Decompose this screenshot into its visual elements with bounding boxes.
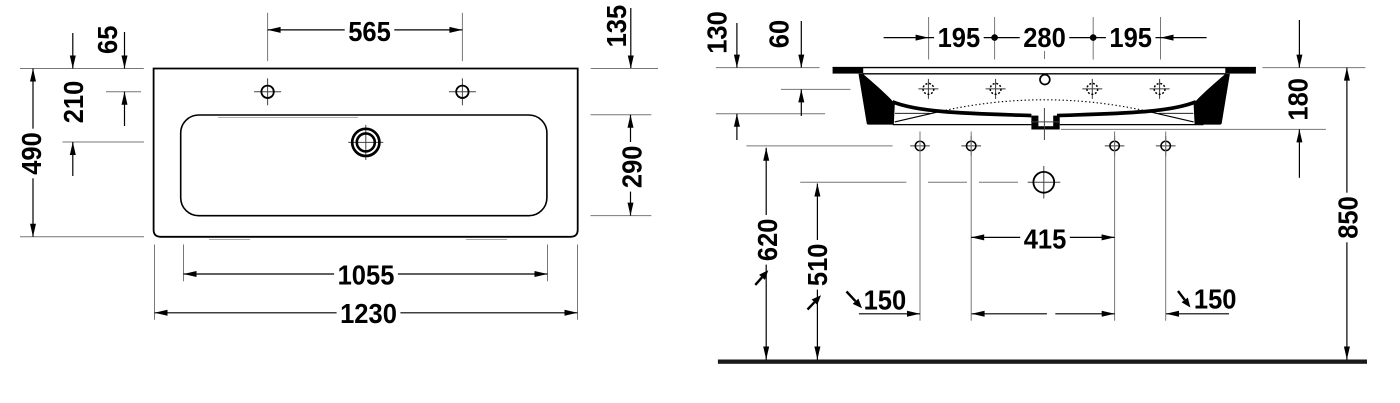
faucet-hole level tick (65 dim)	[106, 91, 141, 93]
dim 195 left label	[934, 25, 984, 50]
top edge extension (left)	[20, 68, 144, 70]
basin bottom edge extension (left)	[716, 113, 825, 115]
hidden diagonal left	[895, 112, 938, 122]
svg-text:415: 415	[1024, 223, 1067, 254]
svg-text:280: 280	[1023, 22, 1066, 53]
dim 290 label	[619, 142, 644, 192]
dim 490 label	[19, 129, 44, 179]
drain bottom extension (180)	[1061, 128, 1326, 130]
dim 510 leader arrow	[808, 302, 815, 309]
dim 510 line+arrows	[816, 184, 818, 360]
dim 135 extension	[591, 68, 658, 70]
drain trap level extension+dashes	[800, 181, 906, 183]
deck faucet hole 1	[918, 88, 938, 90]
drain trap circle	[1028, 181, 1061, 183]
washbasin top view: inner basin rim (rounded rect)	[181, 115, 547, 216]
dim 280 label	[1020, 25, 1070, 50]
dim 290 extensions	[591, 114, 652, 116]
overflow level tick (210 dim)	[63, 141, 145, 143]
dim 150 mid-right line+arrow	[1055, 313, 1114, 315]
dim 415 label	[1020, 226, 1070, 251]
lower holes level extension	[746, 145, 892, 147]
front view rim right black bar	[1225, 67, 1256, 74]
svg-text:150: 150	[864, 284, 907, 315]
front view deck line	[863, 73, 1226, 75]
bottom edge extension (left)	[20, 236, 144, 238]
dim 850 label	[1335, 193, 1360, 243]
hidden line horizontal left	[895, 112, 930, 114]
hidden bowl back-wall dotted arc	[938, 100, 1150, 112]
dim 150 left line+arrow	[859, 313, 920, 315]
dim 620 label	[755, 215, 780, 265]
svg-text:850: 850	[1333, 196, 1364, 239]
svg-text:1055: 1055	[338, 260, 395, 291]
deck faucet hole 2	[986, 88, 1006, 90]
hidden marks below front edge	[209, 239, 250, 241]
svg-text:135: 135	[601, 5, 632, 48]
drain left bar	[1031, 116, 1038, 130]
svg-text:180: 180	[1283, 78, 1314, 121]
rim-top extension (right)	[1262, 67, 1365, 69]
dim 60 tails+arrows	[800, 21, 802, 68]
faucet hole left (top view)	[254, 91, 281, 93]
dim 210 tails+arrows	[72, 33, 74, 69]
svg-text:65: 65	[92, 26, 123, 54]
dim 1055 label	[334, 262, 398, 287]
dim 490 line+arrows	[32, 69, 34, 237]
dim 1055 line+arrows	[184, 273, 548, 275]
inner basin secondary rim line	[218, 117, 358, 119]
dim 850 line+arrows	[1346, 68, 1348, 360]
dim 565 line+arrows	[268, 29, 463, 31]
svg-text:60: 60	[764, 20, 795, 48]
lower mounting hole 2	[961, 145, 981, 147]
dim 415 line+arrows	[971, 236, 1114, 238]
front view rim top line	[833, 67, 1256, 69]
svg-text:130: 130	[702, 11, 733, 54]
overflow/drain double circle (top view)	[348, 141, 383, 143]
front view left wall (solid section)	[859, 74, 895, 125]
basin underside line	[893, 124, 1032, 126]
front view rim left black bar	[833, 67, 864, 74]
svg-text:620: 620	[752, 219, 783, 262]
dim 150 right leader arrow	[1178, 291, 1185, 300]
dim 150 left leader arrow	[847, 292, 856, 302]
hidden diagonal right	[1150, 112, 1193, 122]
dim 565 label	[345, 19, 395, 44]
floor line	[718, 360, 1367, 364]
dim 135 tail+arrow	[630, 8, 632, 69]
dim 65 tails+arrows	[124, 32, 126, 69]
svg-text:210: 210	[58, 81, 89, 124]
center tick above rim	[1044, 51, 1046, 59]
svg-text:1230: 1230	[340, 298, 397, 329]
dim 510 label	[805, 240, 830, 290]
deck-hole level extension	[781, 88, 851, 90]
bowl bottom thick curve right	[1057, 102, 1196, 116]
dim 565 extension lines	[267, 13, 269, 61]
svg-text:510: 510	[802, 244, 833, 287]
drain right bar	[1053, 116, 1060, 130]
top dim dots	[991, 34, 998, 41]
bottom extension lines	[154, 245, 156, 320]
svg-text:290: 290	[617, 146, 648, 189]
drain centerline vertical	[1043, 108, 1045, 140]
deck faucet hole 3	[1082, 88, 1102, 90]
svg-text:490: 490	[16, 132, 47, 175]
front view right wall (solid section)	[1194, 74, 1230, 125]
dim 180 tails+arrows	[1298, 20, 1300, 68]
lower mounting hole 4	[1156, 145, 1176, 147]
hidden line horizontal right	[1158, 112, 1193, 114]
overflow small circle (front view)	[1040, 75, 1050, 85]
faucet hole right (top view)	[449, 91, 476, 93]
dim 620 line+arrows	[765, 148, 767, 360]
dim 1230 line+arrows	[155, 312, 578, 314]
bowl bottom thick curve left	[893, 102, 1032, 116]
deck faucet hole 4	[1150, 88, 1170, 90]
svg-text:195: 195	[1109, 22, 1152, 53]
dim 290 line+arrows	[630, 115, 632, 216]
lower hole extension verticals	[919, 132, 921, 321]
top dim extension lines	[928, 17, 930, 60]
drain bottom bar	[1033, 126, 1057, 129]
top dim line 195/280/195	[884, 37, 1207, 39]
lower mounting hole 1	[910, 145, 930, 147]
dim 620 leader arrow	[755, 277, 762, 285]
svg-text:195: 195	[938, 22, 981, 53]
dim 150 mid-left line+arrow	[972, 313, 1047, 315]
dim 150 right line+arrow	[1166, 313, 1229, 315]
dim 1230 label	[337, 301, 401, 326]
washbasin top view: outer body outline	[154, 69, 578, 237]
svg-text:150: 150	[1194, 283, 1237, 314]
rim-top extension (left)	[716, 67, 820, 69]
lower mounting hole 3	[1105, 145, 1125, 147]
dim 195 right label	[1106, 25, 1156, 50]
svg-text:565: 565	[348, 16, 391, 47]
dim 130 tails+arrows	[736, 23, 738, 68]
drain centerline horizontal	[1031, 121, 1060, 123]
